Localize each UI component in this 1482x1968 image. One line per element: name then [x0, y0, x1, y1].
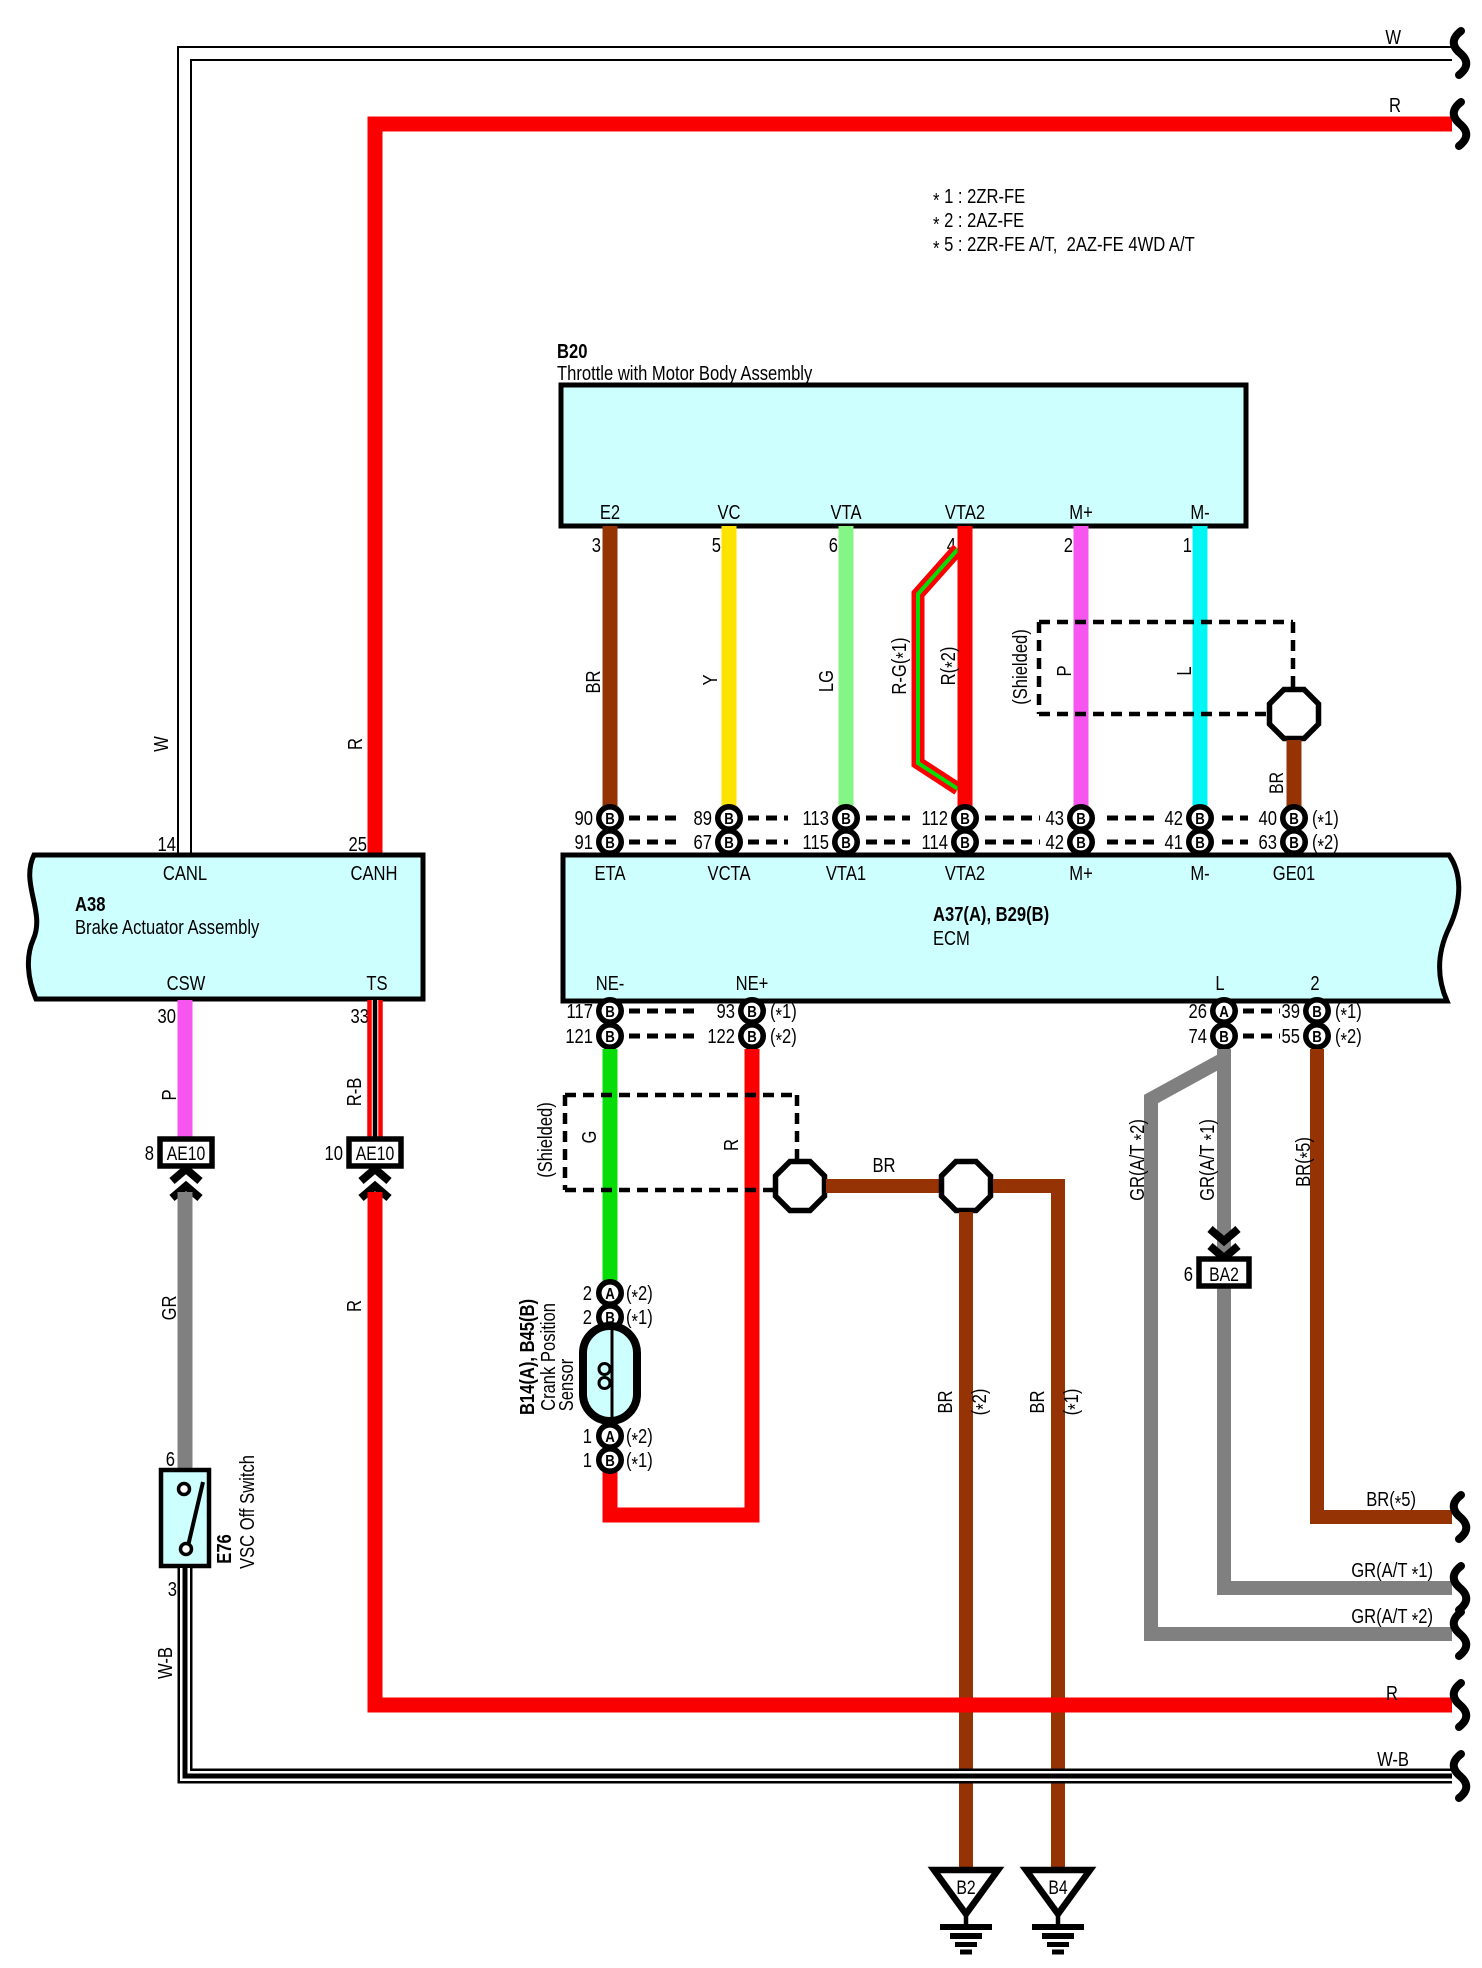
- svg-text:B: B: [605, 835, 615, 852]
- svg-text:112: 112: [922, 807, 948, 830]
- svg-text:39: 39: [1282, 1000, 1300, 1023]
- svg-text:ETA: ETA: [594, 862, 626, 885]
- svg-text:NE-: NE-: [596, 972, 625, 995]
- svg-text:BR: BR: [582, 670, 605, 693]
- wire BR between octagons: [826, 1154, 942, 1186]
- svg-text:Y: Y: [699, 674, 722, 685]
- svg-text:(*1): (*1): [770, 1000, 797, 1027]
- svg-text:W-B: W-B: [154, 1647, 177, 1679]
- svg-text:CANH: CANH: [351, 862, 398, 885]
- svg-text:6: 6: [166, 1448, 175, 1471]
- svg-text:GR(A/T *2): GR(A/T *2): [1126, 1119, 1153, 1201]
- svg-text:G: G: [578, 1131, 601, 1144]
- crank sensor pins 2A 2B: [583, 1282, 653, 1333]
- svg-text:(*1): (*1): [1312, 807, 1339, 834]
- svg-text:E76: E76: [213, 1534, 236, 1564]
- ground B4: [1026, 1870, 1090, 1952]
- svg-text:B: B: [841, 835, 851, 852]
- svg-text:25: 25: [349, 833, 367, 856]
- svg-text:(*2): (*2): [1335, 1025, 1362, 1052]
- svg-text:(*1): (*1): [1060, 1389, 1087, 1416]
- svg-text:AE10: AE10: [356, 1143, 395, 1165]
- svg-text:(*2): (*2): [626, 1425, 653, 1452]
- svg-text:B: B: [1076, 835, 1086, 852]
- svg-text:B: B: [747, 1029, 757, 1046]
- svg-text:B: B: [1076, 811, 1086, 828]
- note: engine variants: [933, 185, 1195, 260]
- svg-text:GR(A/T *1): GR(A/T *1): [1196, 1119, 1223, 1201]
- svg-text:1: 1: [1183, 534, 1192, 557]
- svg-text:10: 10: [325, 1142, 343, 1165]
- svg-text:BR(*5): BR(*5): [1366, 1488, 1416, 1515]
- svg-text:W-B: W-B: [1377, 1748, 1409, 1771]
- svg-text:R: R: [343, 1300, 366, 1312]
- svg-text:B4: B4: [1048, 1877, 1068, 1899]
- svg-text:63: 63: [1259, 831, 1277, 854]
- B20 pin numbers: [592, 534, 1192, 557]
- svg-text:42: 42: [1046, 831, 1064, 854]
- svg-text:A38: A38: [75, 893, 105, 916]
- svg-text:B: B: [1289, 811, 1299, 828]
- svg-text:B: B: [747, 1004, 757, 1021]
- wire GR(A/T *1) from pin 74: [1196, 1049, 1452, 1588]
- svg-text:42: 42: [1165, 807, 1183, 830]
- svg-text:Brake Actuator Assembly: Brake Actuator Assembly: [75, 916, 260, 939]
- svg-text:VC: VC: [717, 501, 740, 524]
- svg-text:R-G(*1): R-G(*1): [888, 637, 915, 694]
- connector A38 Brake Actuator Assembly: [28, 855, 423, 999]
- svg-text:B: B: [605, 1029, 615, 1046]
- svg-text:B: B: [605, 1004, 615, 1021]
- svg-text:VTA1: VTA1: [826, 862, 866, 885]
- svg-text:* 1 : 2ZR-FE: * 1 : 2ZR-FE: [933, 185, 1025, 212]
- svg-text:91: 91: [575, 831, 593, 854]
- wire G NE-: [578, 1049, 610, 1282]
- A38 pin numbers: [158, 833, 369, 1028]
- svg-text:2: 2: [583, 1282, 592, 1305]
- svg-text:B: B: [1312, 1004, 1322, 1021]
- svg-text:L: L: [1215, 972, 1224, 995]
- svg-text:89: 89: [694, 807, 712, 830]
- svg-text:40: 40: [1259, 807, 1277, 830]
- svg-text:L: L: [1173, 666, 1196, 675]
- svg-text:GE01: GE01: [1273, 862, 1315, 885]
- crank position sensor B14(A), B45(B): [516, 1299, 637, 1421]
- svg-text:ECM: ECM: [933, 927, 970, 950]
- wire BR(*5) from pin 55: [1292, 1049, 1452, 1517]
- junction octagon BR: [942, 1162, 991, 1211]
- svg-text:R-B: R-B: [343, 1078, 366, 1107]
- ECM pins L, 2: [1189, 1000, 1362, 1052]
- svg-text:M+: M+: [1069, 501, 1092, 524]
- svg-text:LG: LG: [815, 670, 838, 692]
- svg-text:74: 74: [1189, 1025, 1207, 1048]
- svg-text:B: B: [841, 811, 851, 828]
- svg-text:BR: BR: [872, 1154, 895, 1177]
- ground B2: [934, 1870, 998, 1952]
- svg-text:B: B: [724, 811, 734, 828]
- svg-text:R(*2): R(*2): [937, 647, 964, 686]
- wire R (CANH to top-right): [344, 94, 1452, 855]
- svg-text:CSW: CSW: [167, 972, 206, 995]
- svg-text:3: 3: [592, 534, 601, 557]
- svg-text:(*1): (*1): [1335, 1000, 1362, 1027]
- svg-text:R: R: [344, 738, 367, 750]
- svg-text:A37(A), B29(B): A37(A), B29(B): [933, 903, 1049, 926]
- svg-text:BA2: BA2: [1209, 1264, 1239, 1286]
- svg-text:R: R: [720, 1139, 743, 1151]
- svg-text:CANL: CANL: [163, 862, 207, 885]
- svg-text:6: 6: [829, 534, 838, 557]
- ECM connector pins top rows: [575, 807, 1339, 858]
- shield (Shielded) around G and R: [534, 1095, 797, 1190]
- svg-text:R: R: [1389, 94, 1401, 117]
- svg-text:M-: M-: [1190, 862, 1209, 885]
- wire P CSW: [158, 1000, 185, 1139]
- svg-text:Sensor: Sensor: [555, 1359, 578, 1412]
- svg-text:41: 41: [1165, 831, 1183, 854]
- wire LG VTA: [815, 526, 846, 807]
- svg-text:43: 43: [1046, 807, 1064, 830]
- svg-text:BR: BR: [934, 1390, 957, 1413]
- svg-text:(Shielded): (Shielded): [534, 1102, 557, 1178]
- svg-text:B: B: [1195, 835, 1205, 852]
- connector AE10 pin 8: [145, 1139, 212, 1198]
- wire W (CANL to top-right): [150, 26, 1452, 855]
- wire break symbols right edge: [1454, 31, 1467, 1798]
- svg-text:BR(*5): BR(*5): [1292, 1137, 1319, 1187]
- svg-text:VCTA: VCTA: [707, 862, 751, 885]
- svg-text:W: W: [1385, 26, 1401, 49]
- svg-text:93: 93: [717, 1000, 735, 1023]
- svg-text:121: 121: [565, 1025, 593, 1048]
- ECM box A37(A), B29(B): [563, 855, 1459, 1001]
- svg-text:B: B: [1195, 811, 1205, 828]
- svg-text:E2: E2: [600, 501, 620, 524]
- svg-text:GR(A/T *2): GR(A/T *2): [1351, 1605, 1433, 1632]
- svg-text:8: 8: [145, 1142, 154, 1165]
- svg-text:(*2): (*2): [626, 1282, 653, 1309]
- wire BR (*1) to B4 ground: [993, 1186, 1086, 1870]
- svg-text:(*2): (*2): [968, 1389, 995, 1416]
- svg-text:(*1): (*1): [626, 1306, 653, 1333]
- svg-text:BR: BR: [1026, 1390, 1049, 1413]
- svg-text:B: B: [605, 1453, 615, 1470]
- svg-text:2: 2: [583, 1306, 592, 1329]
- svg-text:* 2 : 2AZ-FE: * 2 : 2AZ-FE: [933, 209, 1024, 236]
- svg-text:(*1): (*1): [626, 1449, 653, 1476]
- wire P M+: [1053, 526, 1081, 807]
- svg-text:P: P: [1053, 665, 1076, 676]
- wire GR(A/T *2) branch: [1126, 1059, 1452, 1634]
- wire GR to VSC switch: [158, 1192, 185, 1470]
- svg-text:A: A: [605, 1286, 615, 1303]
- svg-text:VSC Off Switch: VSC Off Switch: [236, 1455, 259, 1569]
- svg-text:B2: B2: [956, 1877, 975, 1899]
- wire R to bottom-right: [343, 1192, 1452, 1705]
- svg-text:B: B: [960, 835, 970, 852]
- svg-text:33: 33: [351, 1005, 369, 1028]
- svg-text:B: B: [1219, 1029, 1229, 1046]
- svg-text:B20: B20: [557, 340, 587, 363]
- svg-text:122: 122: [707, 1025, 735, 1048]
- shield octagon at crank sensor: [776, 1162, 825, 1211]
- wire L M-: [1173, 526, 1200, 807]
- svg-text:14: 14: [158, 833, 176, 856]
- wire Y VC: [699, 526, 729, 807]
- shield (Shielded) around P and L: [1009, 622, 1293, 714]
- svg-text:B14(A), B45(B): B14(A), B45(B): [516, 1299, 539, 1415]
- svg-text:P: P: [158, 1089, 181, 1100]
- connector BA2 with arrow: [1184, 1229, 1249, 1286]
- svg-text:VTA2: VTA2: [945, 501, 985, 524]
- svg-text:A: A: [1219, 1004, 1229, 1021]
- wire R NE+: [610, 1049, 752, 1515]
- svg-text:2: 2: [1310, 972, 1319, 995]
- svg-text:M+: M+: [1069, 862, 1092, 885]
- svg-text:VTA: VTA: [830, 501, 862, 524]
- svg-text:117: 117: [567, 1000, 593, 1023]
- svg-text:B: B: [1312, 1029, 1322, 1046]
- svg-text:W: W: [150, 736, 173, 752]
- svg-text:VTA2: VTA2: [945, 862, 985, 885]
- connector B20 Throttle with Motor Body Assembly: [557, 340, 1246, 526]
- svg-text:B: B: [605, 811, 615, 828]
- svg-text:1: 1: [583, 1449, 592, 1472]
- svg-text:Throttle with Motor Body Assem: Throttle with Motor Body Assembly: [557, 362, 813, 385]
- svg-text:BR: BR: [1266, 772, 1288, 794]
- svg-text:55: 55: [1282, 1025, 1300, 1048]
- svg-text:90: 90: [575, 807, 593, 830]
- shield ground octagon (GE01): [1270, 690, 1319, 739]
- svg-text:115: 115: [803, 831, 829, 854]
- svg-text:B: B: [960, 811, 970, 828]
- svg-text:30: 30: [158, 1005, 176, 1028]
- crank sensor pins 1A 1B: [583, 1425, 653, 1476]
- svg-text:GR: GR: [158, 1296, 181, 1321]
- wire BR E2: [582, 526, 610, 807]
- svg-text:M-: M-: [1190, 501, 1209, 524]
- svg-text:NE+: NE+: [736, 972, 769, 995]
- svg-text:R: R: [1386, 1682, 1398, 1705]
- wire BR to GE01: [1266, 740, 1294, 807]
- svg-text:TS: TS: [366, 972, 387, 995]
- svg-text:AE10: AE10: [167, 1143, 206, 1165]
- svg-text:6: 6: [1184, 1263, 1193, 1286]
- svg-text:26: 26: [1189, 1000, 1207, 1023]
- svg-text:113: 113: [803, 807, 829, 830]
- svg-text:(Shielded): (Shielded): [1009, 629, 1032, 705]
- svg-text:1: 1: [583, 1425, 592, 1448]
- wire BR (*2) to B2 ground: [934, 1212, 995, 1870]
- svg-text:2: 2: [1064, 534, 1073, 557]
- wire R VTA2 with R-G branch: [888, 526, 965, 807]
- wire R-B TS: [343, 1000, 375, 1139]
- svg-text:B: B: [724, 835, 734, 852]
- ECM pins NE-, NE+: [565, 1000, 796, 1052]
- svg-text:3: 3: [168, 1578, 177, 1601]
- svg-text:(*2): (*2): [770, 1025, 797, 1052]
- svg-text:5: 5: [712, 534, 721, 557]
- wire W-B from switch to bottom-right: [154, 1566, 1452, 1776]
- svg-text:B: B: [1289, 835, 1299, 852]
- svg-text:67: 67: [694, 831, 712, 854]
- svg-text:114: 114: [922, 831, 948, 854]
- svg-text:* 5 : 2ZR-FE A/T, 2AZ-FE 4WD: * 5 : 2ZR-FE A/T, 2AZ-FE 4WD A/T: [933, 233, 1195, 260]
- connector AE10 pin 10: [325, 1139, 401, 1198]
- svg-text:GR(A/T *1): GR(A/T *1): [1351, 1559, 1433, 1586]
- svg-text:A: A: [605, 1429, 615, 1446]
- switch E76 VSC Off Switch: [161, 1448, 258, 1601]
